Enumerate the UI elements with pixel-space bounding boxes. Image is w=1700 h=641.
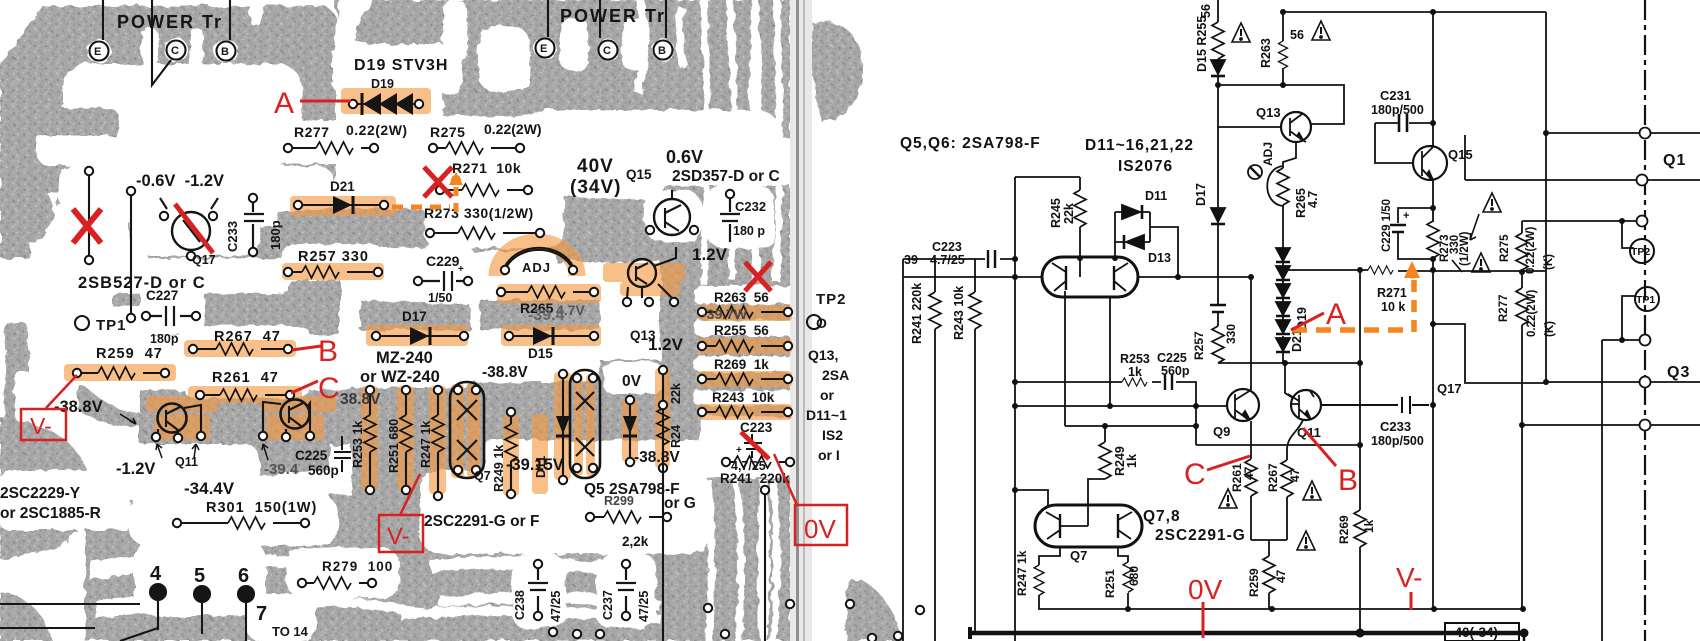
svg-text:-39.15V: -39.15V	[506, 456, 564, 474]
svg-text:R275: R275	[1499, 234, 1511, 262]
capacitor C231	[1399, 114, 1407, 132]
wire R253/C225 row	[1015, 382, 1196, 406]
svg-text:1.2V: 1.2V	[692, 245, 728, 264]
resistor R241pcb	[726, 461, 790, 463]
resistor R247 vertical	[432, 415, 444, 452]
wire left edge column	[902, 259, 904, 641]
svg-text:TP1: TP1	[96, 317, 127, 334]
resistor R299 2.2k	[590, 516, 667, 518]
svg-text:180p/500: 180p/500	[1371, 434, 1424, 448]
wire R271 row	[1283, 270, 1546, 271]
svg-text:C227: C227	[146, 288, 178, 303]
wire bias row y363	[1218, 362, 1360, 364]
transistor Q17	[172, 212, 210, 250]
resistor R255	[702, 345, 788, 347]
svg-text:47: 47	[1288, 468, 1302, 482]
svg-text:(K): (K)	[1543, 254, 1555, 270]
resistor R269	[702, 378, 788, 380]
wire drop to y445	[1195, 406, 1197, 445]
svg-text:2SB527-D or C: 2SB527-D or C	[78, 274, 206, 292]
pad E	[90, 42, 109, 61]
wire TP1 stub	[1622, 296, 1636, 338]
vertical strips R253 R251 R247	[361, 386, 378, 490]
svg-text:C233: C233	[1380, 419, 1411, 434]
wire Q11 emitter to R267	[1287, 420, 1303, 540]
ADJ arc trimmer	[505, 250, 573, 270]
svg-text:Q15: Q15	[626, 167, 652, 182]
svg-text:R253: R253	[1120, 352, 1150, 366]
dash-dot boundary	[1644, 0, 1646, 641]
resistor R259	[1263, 556, 1275, 593]
white row between D17/D15 and verticals	[470, 352, 600, 382]
white channels in bottom band	[90, 554, 390, 580]
svg-text:330: 330	[1224, 324, 1238, 344]
svg-text:Q11: Q11	[1297, 425, 1321, 440]
wire collector loop Q13	[1218, 85, 1344, 124]
svg-text:C232: C232	[735, 199, 766, 214]
svg-text:Q7: Q7	[1070, 548, 1087, 563]
svg-text:4: 4	[150, 563, 162, 585]
wire D11/D13 pair	[1115, 212, 1178, 277]
resistor R265	[1277, 168, 1289, 205]
diode D19 triple	[353, 103, 419, 105]
capacitor C233	[244, 200, 264, 250]
wire R249	[1104, 426, 1106, 479]
highlight R267	[184, 340, 296, 357]
diode D17pcb	[376, 335, 464, 337]
svg-text:C223: C223	[932, 240, 962, 254]
highlight D19	[341, 88, 431, 114]
wire top pads left	[103, 0, 230, 85]
patch above R301 between -34.4V and MZ	[180, 430, 330, 478]
wire Q13 emitter to R265	[1283, 142, 1296, 168]
svg-text:1k: 1k	[1125, 454, 1139, 468]
svg-text:R257: R257	[1192, 331, 1206, 360]
svg-text:180 p: 180 p	[733, 224, 765, 238]
svg-text:R249 1k: R249 1k	[492, 445, 506, 492]
svg-text:1/50: 1/50	[428, 291, 452, 305]
white pockets in vertical strip zone	[604, 362, 662, 394]
svg-text:0.22(2W): 0.22(2W)	[484, 121, 542, 137]
patch top right of scan near gutter top	[811, 22, 862, 122]
wire Q7 bottom leads	[1039, 546, 1128, 597]
svg-text:Q11: Q11	[175, 455, 198, 469]
svg-text:Q9: Q9	[1213, 424, 1230, 439]
highlight R265	[497, 284, 601, 303]
svg-text:47: 47	[1274, 569, 1288, 583]
svg-text:R263: R263	[1259, 38, 1273, 68]
pad B2	[654, 41, 673, 60]
svg-text:-39.4: -39.4	[264, 461, 299, 478]
wire R245 box	[1015, 177, 1080, 258]
wire C231	[1375, 123, 1433, 163]
svg-text:1k: 1k	[1128, 365, 1142, 379]
transistor Q13	[1281, 112, 1311, 142]
diode D15pcb	[509, 335, 594, 337]
svg-text:560p: 560p	[1161, 364, 1190, 378]
resistor R255	[1212, 22, 1224, 59]
svg-text:TO 14: TO 14	[272, 624, 309, 639]
capacitor C237	[616, 566, 636, 614]
pad C2	[599, 41, 618, 60]
svg-text:POWER Tr: POWER Tr	[560, 6, 666, 26]
white pocket 40V(34V)	[558, 142, 666, 198]
svg-text:R277: R277	[1498, 295, 1510, 323]
highlight R263	[698, 305, 792, 321]
svg-text:R259 47: R259 47	[96, 346, 163, 362]
svg-text:R257 330: R257 330	[298, 249, 369, 265]
red slash over C223pcb	[741, 432, 769, 459]
svg-text:B: B	[658, 45, 666, 57]
svg-text:R267: R267	[1266, 463, 1280, 492]
red X left	[73, 209, 101, 243]
svg-text:C: C	[171, 45, 179, 57]
svg-text:39: 39	[904, 253, 918, 267]
svg-text:V-: V-	[30, 413, 52, 439]
resistor R277sch	[1516, 288, 1528, 325]
connector circles on Q1/Q3 boundary	[1637, 128, 1651, 431]
svg-text:Q15: Q15	[1448, 147, 1473, 162]
wire 0V bus	[970, 631, 1527, 636]
resistor R271	[1368, 266, 1393, 274]
resistor R243	[969, 292, 981, 329]
red box 0V with leader	[795, 505, 847, 545]
wire R241 column	[934, 259, 936, 641]
capacitor C225	[1165, 374, 1172, 390]
svg-text:560p: 560p	[308, 463, 339, 478]
svg-text:TP2: TP2	[816, 291, 847, 308]
svg-text:R255 56: R255 56	[714, 323, 769, 338]
svg-text:C: C	[318, 372, 340, 405]
diode D17	[1211, 208, 1225, 222]
wire y382 row	[1546, 381, 1700, 383]
svg-text:E: E	[540, 43, 547, 55]
svg-text:2SD357-D or C: 2SD357-D or C	[672, 168, 780, 185]
svg-text:-1.2V: -1.2V	[116, 460, 155, 478]
right streak column	[690, 0, 790, 641]
svg-text:TP1: TP1	[1636, 294, 1655, 306]
white lake -1.2V -34.4V row	[100, 444, 260, 500]
white gap between top-left and top-center masses	[332, 44, 462, 94]
svg-text:6: 6	[238, 565, 249, 587]
svg-text:D19: D19	[371, 77, 394, 91]
highlight R259	[64, 364, 176, 381]
svg-text:or WZ-240: or WZ-240	[360, 368, 440, 386]
highlight Q11 pads	[146, 396, 218, 412]
svg-text:B: B	[318, 335, 338, 368]
diode D11	[1122, 205, 1140, 219]
diode D13pcb column	[629, 400, 631, 462]
strips in Q-pack ovals	[451, 384, 464, 478]
wire D15/R255 column	[1217, 0, 1219, 326]
resistor R253	[1122, 378, 1147, 386]
white pocket around Q15 transistor and C232	[644, 190, 702, 242]
svg-text:4.7: 4.7	[1306, 191, 1320, 208]
resistor R241	[929, 292, 941, 329]
svg-text:IS2: IS2	[822, 427, 843, 443]
svg-text:D19 STV3H: D19 STV3H	[354, 57, 448, 74]
svg-text:R247 1k: R247 1k	[1015, 550, 1029, 596]
svg-text:10 k: 10 k	[1381, 300, 1405, 314]
svg-text:Q5,Q6: 2SA798-F: Q5,Q6: 2SA798-F	[900, 135, 1041, 152]
svg-text:V-: V-	[387, 523, 410, 550]
transistor Q11	[1291, 390, 1321, 420]
svg-text:0.6V: 0.6V	[666, 147, 703, 167]
svg-text:D11~16,21,22: D11~16,21,22	[1085, 137, 1194, 154]
svg-text:R277: R277	[294, 124, 329, 140]
svg-text:D17: D17	[1194, 183, 1208, 206]
svg-text:56: 56	[1199, 4, 1213, 18]
white lakes middle rows R267/R259/R261	[180, 326, 310, 360]
highlight Q13a	[603, 263, 685, 282]
resistor R249	[1099, 442, 1111, 479]
capacitor C229	[420, 271, 468, 291]
red X over R271	[424, 167, 452, 197]
svg-text:-38.8V: -38.8V	[54, 398, 103, 416]
transistor Q15	[1413, 146, 1447, 180]
wire TP2 row y220	[1522, 221, 1645, 248]
resistor R247	[1034, 565, 1044, 595]
svg-text:R247 1k: R247 1k	[419, 421, 433, 468]
resistor R277	[288, 147, 374, 149]
pad E2	[536, 39, 555, 58]
long wire down center	[662, 407, 664, 641]
highlight Q13b pads	[260, 396, 336, 412]
red box V- center with leader	[379, 515, 423, 552]
svg-text:+: +	[1403, 210, 1409, 222]
wire Q5 row left	[903, 276, 1042, 278]
red box V- left with leader	[21, 409, 66, 440]
svg-text:C237: C237	[601, 590, 615, 620]
wire x1546 column	[1545, 12, 1547, 382]
svg-text:D17: D17	[402, 309, 427, 324]
capacitor C223	[988, 250, 995, 268]
white slots between pads E C B	[142, 28, 158, 68]
capacitor C232	[720, 196, 740, 242]
white pocket -0.6V -1.2V / Q17	[58, 166, 334, 210]
resistor R251	[1123, 562, 1133, 592]
svg-text:Q7: Q7	[474, 469, 491, 483]
white lake MZ-240 block	[344, 344, 474, 388]
svg-text:R243 10k: R243 10k	[952, 286, 966, 340]
svg-text:R269 1k: R269 1k	[714, 357, 769, 372]
svg-text:0.22(2W): 0.22(2W)	[346, 122, 408, 138]
resistor R273	[430, 232, 540, 234]
red slash over Q17	[175, 204, 213, 253]
diode D13	[1126, 235, 1144, 249]
wire Q5 row right	[1138, 276, 1251, 278]
white slots C238 C237	[512, 554, 566, 628]
resistor R253 vertical	[364, 415, 376, 452]
wire x1015 long column	[1014, 177, 1016, 641]
white lake R277/R275 row	[278, 120, 428, 164]
svg-text:A: A	[1326, 298, 1346, 331]
svg-text:0.22(2W): 0.22(2W)	[1526, 290, 1538, 337]
resistor R251 vertical	[400, 415, 412, 452]
diode D15	[1211, 60, 1225, 74]
svg-text:1k: 1k	[1362, 519, 1376, 533]
white ring zones around top-center pads	[534, 37, 556, 59]
resistor R267	[1281, 460, 1293, 497]
svg-text:E: E	[94, 46, 101, 58]
dual transistor package Q-pack1	[450, 382, 484, 478]
resistor R261	[200, 394, 290, 396]
highlight D15	[501, 325, 601, 346]
white lake inside top-left mass	[62, 64, 302, 166]
wire y425 row	[1522, 424, 1700, 426]
transistor Q13pcb	[281, 400, 310, 429]
svg-text:IS2076: IS2076	[1118, 158, 1173, 175]
capacitor C227	[146, 306, 196, 326]
svg-text:R299: R299	[604, 494, 634, 508]
capacitor C229 (polar)	[1390, 225, 1406, 232]
dual transistor Q5	[1042, 257, 1138, 297]
testpoint TP1 pad	[75, 316, 89, 330]
svg-text:-38.8V: -38.8V	[634, 449, 680, 466]
misc bottom pads	[549, 628, 557, 636]
svg-text:or: or	[820, 387, 835, 403]
resistor R265	[501, 291, 594, 293]
svg-text:or G: or G	[664, 495, 696, 512]
pad B	[217, 42, 236, 61]
svg-text:0.22(2W): 0.22(2W)	[1525, 227, 1537, 274]
svg-text:R253 1k: R253 1k	[351, 421, 365, 468]
capacitor C238	[528, 566, 548, 614]
wire y180 stub	[1465, 135, 1700, 180]
trimmer screw symbol	[1248, 165, 1262, 179]
transistor Q13a	[628, 259, 656, 287]
svg-text:22k: 22k	[1062, 203, 1076, 224]
svg-text:R279 100: R279 100	[322, 559, 393, 574]
highlight D21	[290, 196, 396, 216]
svg-text:180p: 180p	[268, 220, 283, 250]
svg-text:47/25: 47/25	[549, 591, 563, 622]
resistor R259	[77, 372, 165, 374]
wire C229 loop	[1398, 208, 1433, 259]
svg-text:47: 47	[1242, 466, 1256, 480]
white pocket 0.6V 2SD357 row	[652, 138, 798, 186]
svg-text:or 2SC1885-R: or 2SC1885-R	[0, 505, 101, 522]
svg-text:Q17: Q17	[1437, 381, 1462, 396]
svg-text:D11~1: D11~1	[806, 407, 847, 423]
svg-text:2SC2229-Y: 2SC2229-Y	[0, 485, 81, 502]
svg-text:+: +	[736, 445, 742, 456]
wire top rail	[1283, 11, 1546, 13]
top-right-of-A diagonal blob	[335, 0, 470, 49]
svg-text:C: C	[603, 45, 611, 57]
svg-text:R251: R251	[1103, 569, 1117, 598]
white pocket 2SB527 text row	[70, 258, 290, 294]
svg-text:Q17: Q17	[192, 253, 216, 267]
resistor R279	[302, 582, 372, 584]
wire Q9 column	[1250, 277, 1252, 540]
svg-text:ADJ: ADJ	[522, 260, 551, 275]
resistor R261	[1245, 459, 1257, 496]
wire C223 row	[903, 258, 1015, 260]
svg-text:O: O	[816, 315, 827, 331]
white lake Q5 2SA798 text	[420, 470, 710, 554]
resistor R263	[702, 311, 788, 313]
resistor R257	[288, 271, 378, 273]
band above bottom (between R301 and pads)	[95, 488, 175, 545]
wire Q17 jog	[1433, 324, 1546, 383]
scan gutter: light band + dark edge line	[790, 0, 812, 641]
svg-text:-0.6V -1.2V: -0.6V -1.2V	[136, 172, 224, 190]
svg-text:180p/500: 180p/500	[1371, 103, 1424, 117]
svg-text:Q13: Q13	[1256, 105, 1281, 120]
wire Q5 bottom leads	[1065, 297, 1110, 426]
svg-text:R259: R259	[1247, 568, 1261, 597]
capacitor C227	[1210, 305, 1226, 312]
white slots right column rows	[692, 140, 802, 184]
white slot C229	[418, 243, 474, 303]
box -40(-34)	[1445, 623, 1519, 641]
svg-text:R301 150(1W): R301 150(1W)	[206, 500, 317, 516]
svg-text:C229 1/50: C229 1/50	[1381, 199, 1393, 252]
svg-text:A: A	[274, 87, 294, 120]
svg-text:38.8V: 38.8V	[340, 391, 381, 408]
svg-text:+: +	[458, 264, 464, 275]
svg-text:7: 7	[256, 603, 267, 625]
wire R243 column	[974, 259, 976, 631]
svg-text:1.2V: 1.2V	[648, 335, 684, 354]
svg-text:C: C	[1184, 458, 1206, 491]
diode column D11pcb	[562, 374, 564, 480]
wire x1602 column	[1601, 340, 1603, 641]
arm sweeping down-left from top mass	[57, 158, 240, 214]
wire diode chain joints	[1282, 262, 1284, 363]
svg-text:-34.4V: -34.4V	[184, 479, 235, 498]
svg-text:4.7/25: 4.7/25	[930, 253, 965, 267]
red X right	[745, 262, 771, 291]
svg-text:V-: V-	[1396, 562, 1422, 593]
svg-text:40V: 40V	[577, 156, 614, 177]
resistor R263	[1279, 41, 1288, 69]
svg-text:R241 220k: R241 220k	[720, 471, 790, 486]
svg-text:C231: C231	[1380, 88, 1411, 103]
orange dashed annotation to D21	[392, 186, 456, 212]
highlight R257	[282, 263, 384, 280]
wire Q7 top leads	[1015, 479, 1105, 506]
wire R251 bottom	[1127, 593, 1129, 609]
svg-text:R241 220k: R241 220k	[910, 283, 924, 344]
wavy white channels misc	[340, 188, 432, 204]
svg-text:D13: D13	[1148, 251, 1171, 265]
svg-text:D15 R255: D15 R255	[1195, 16, 1209, 72]
svg-text:2SC2291-G: 2SC2291-G	[1155, 527, 1246, 544]
svg-text:Q3: Q3	[1667, 364, 1690, 381]
highlight D17	[366, 325, 468, 346]
wire Q9 base row	[1015, 405, 1227, 407]
wire main column x1433	[1432, 12, 1434, 609]
svg-text:2SA: 2SA	[822, 367, 849, 383]
svg-text:5: 5	[194, 565, 205, 587]
highlight R243	[698, 404, 792, 420]
dual transistor Q7	[1035, 505, 1142, 547]
resistor R243	[702, 411, 788, 413]
wire R275/R277 column	[1521, 221, 1523, 609]
svg-text:0V: 0V	[1188, 574, 1223, 605]
resistor R267	[193, 348, 288, 350]
transistor Q9	[1227, 389, 1259, 421]
wire Q13 base	[1218, 126, 1281, 128]
wire TP1 columns	[89, 173, 131, 316]
resistor 22k vertical	[657, 408, 669, 445]
white slot C227	[140, 282, 204, 334]
resistor R275	[433, 147, 520, 149]
svg-text:-38.8V: -38.8V	[482, 364, 528, 381]
test point TP2	[1630, 239, 1654, 263]
